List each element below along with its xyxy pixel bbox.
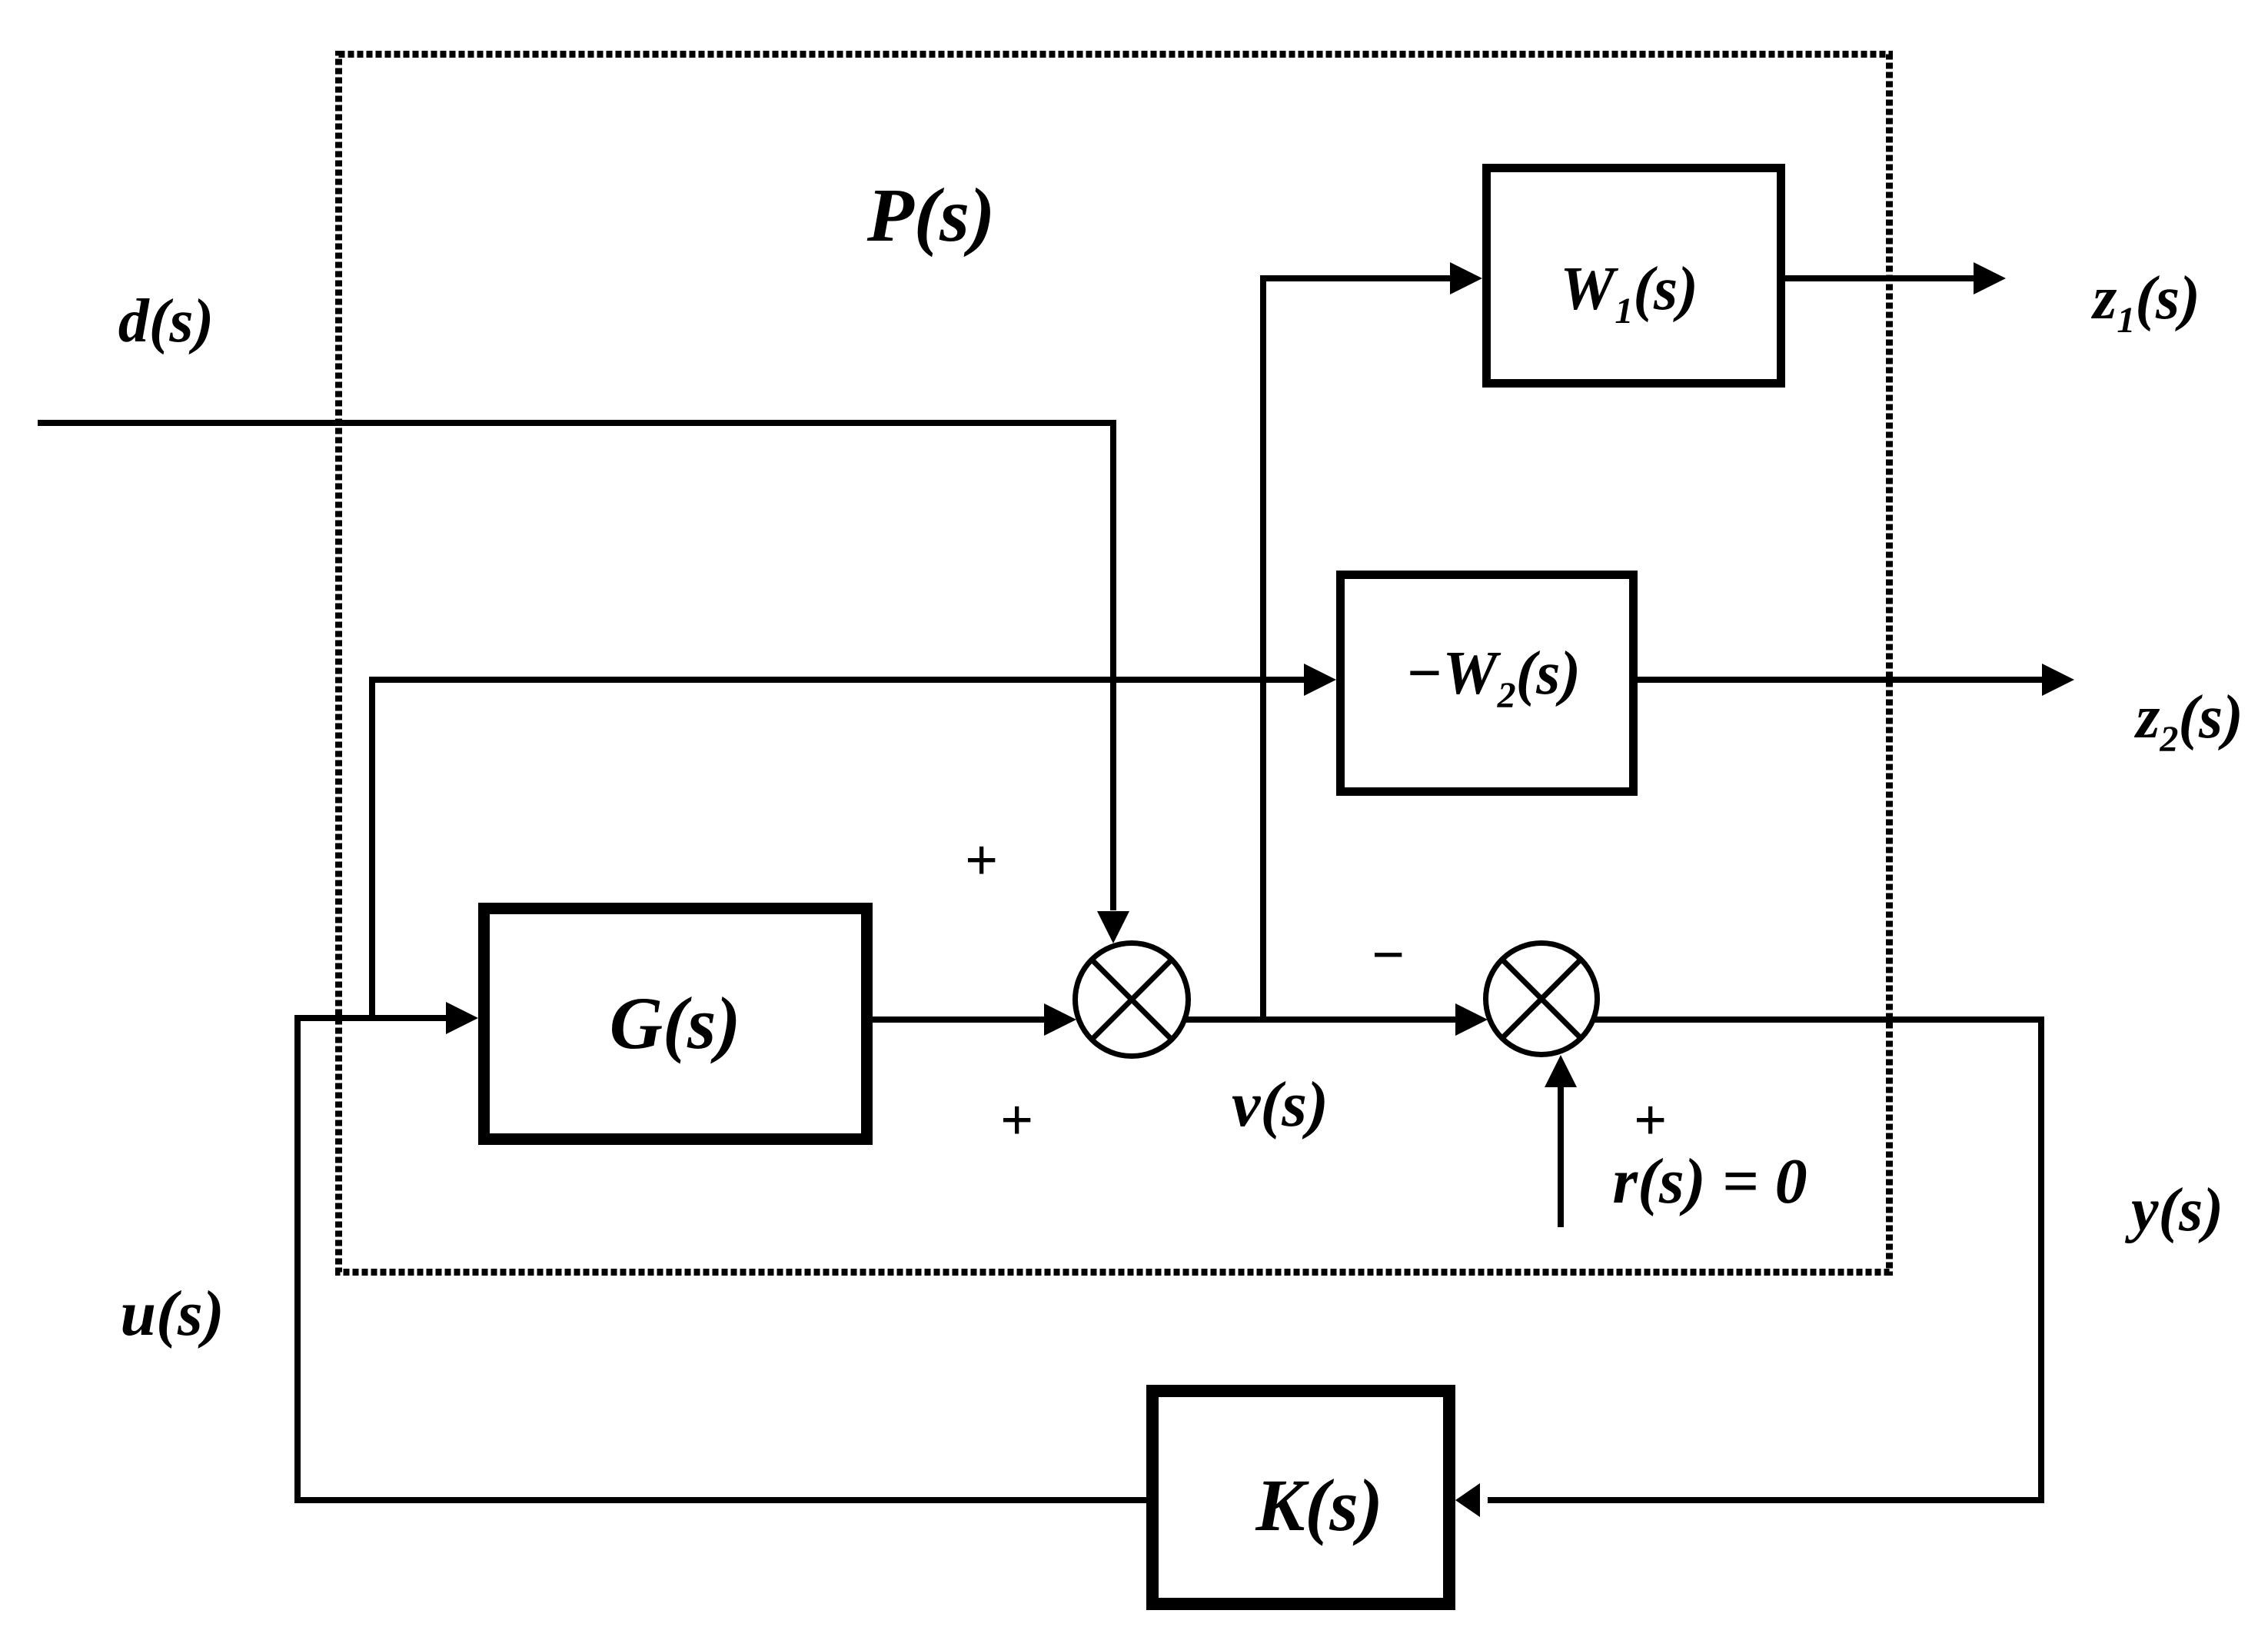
svg-text:−: − bbox=[1370, 923, 1405, 987]
svg-text:z2(s): z2(s) bbox=[2133, 684, 2243, 760]
svg-text:+: + bbox=[999, 1088, 1033, 1153]
plus sign for G output at S1 bbox=[999, 1088, 1033, 1153]
arrowhead into S2 bbox=[1455, 1003, 1488, 1036]
wire S2 output bbox=[1594, 1016, 2044, 1023]
arrowhead into W2 bbox=[1304, 664, 1336, 696]
wire d(s) horizontal bbox=[38, 420, 1116, 426]
svg-text:+: + bbox=[1633, 1088, 1666, 1153]
block W1(s) bbox=[1487, 168, 1781, 384]
arrowhead z2 bbox=[2042, 664, 2074, 696]
wire S1 to S2 bbox=[1185, 1016, 1455, 1023]
svg-text:z1(s): z1(s) bbox=[2090, 265, 2200, 341]
dashed boundary of generalized plant P(s) bbox=[339, 55, 1890, 1273]
wire y into K bbox=[1488, 1497, 2044, 1503]
label u(s) bbox=[120, 1278, 224, 1349]
arrowhead r into S2 bottom bbox=[1545, 1055, 1577, 1087]
arrowhead into G bbox=[446, 1002, 478, 1034]
svg-text:v(s): v(s) bbox=[1232, 1069, 1329, 1140]
wire K output horizontal bbox=[294, 1497, 1146, 1503]
arrowhead z1 bbox=[1974, 262, 2006, 294]
wire r(s) vertical into S2 bbox=[1558, 1087, 1564, 1227]
wire tap riser to W2 bbox=[369, 677, 375, 1021]
arrowhead into K bbox=[1455, 1483, 1480, 1517]
wire G output into S1 bbox=[873, 1016, 1044, 1023]
label y(s) bbox=[2124, 1176, 2223, 1244]
label v(s) bbox=[1232, 1069, 1329, 1140]
wire W1 output to z1 bbox=[1785, 275, 1974, 281]
wire u into G input bbox=[298, 1015, 446, 1021]
block G(s) bbox=[484, 909, 867, 1140]
plus sign for d input at S1 bbox=[964, 828, 997, 893]
svg-text:y(s): y(s) bbox=[2124, 1176, 2223, 1244]
svg-text:r(s) = 0: r(s) = 0 bbox=[1612, 1146, 1807, 1217]
block -W2(s) bbox=[1341, 575, 1634, 792]
wire v tap riser to W1 bbox=[1260, 275, 1266, 1020]
plus sign for r input at S2 bbox=[1633, 1088, 1666, 1153]
label z2(s) bbox=[2133, 684, 2243, 760]
svg-text:P(s): P(s) bbox=[866, 172, 996, 258]
label P(s) bbox=[866, 172, 996, 258]
svg-text:+: + bbox=[964, 828, 997, 893]
wire into W2 bbox=[372, 677, 1304, 683]
minus sign at S2 input bbox=[1370, 923, 1405, 987]
arrowhead d into S1 bbox=[1097, 911, 1129, 943]
svg-text:u(s): u(s) bbox=[120, 1278, 224, 1349]
arrowhead into W1 bbox=[1450, 262, 1482, 294]
label z1(s) bbox=[2090, 265, 2200, 341]
svg-text:d(s): d(s) bbox=[118, 288, 214, 355]
wire y vertical drop bbox=[2038, 1016, 2044, 1503]
wire d(s) vertical drop to summer S1 bbox=[1110, 420, 1116, 910]
wire W2 output to z2 bbox=[1638, 677, 2042, 683]
svg-text:−W2(s): −W2(s) bbox=[1405, 640, 1581, 716]
block K(s) bbox=[1152, 1391, 1449, 1604]
label r(s) = 0 bbox=[1612, 1146, 1807, 1217]
label d(s) bbox=[118, 288, 214, 355]
wire u vertical (feedback riser) bbox=[294, 1015, 301, 1503]
svg-text:K(s): K(s) bbox=[1255, 1464, 1382, 1546]
summing junction S2 bbox=[1486, 943, 1598, 1055]
arrowhead G output into S1 bbox=[1044, 1003, 1076, 1036]
summing junction S1 bbox=[1076, 943, 1189, 1056]
svg-text:G(s): G(s) bbox=[610, 982, 741, 1064]
wire into W1 bbox=[1260, 275, 1450, 281]
